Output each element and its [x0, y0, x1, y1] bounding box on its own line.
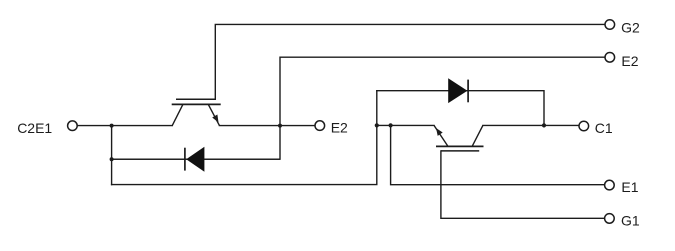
- terminal C1: [579, 121, 589, 131]
- gate bar U1: [441, 150, 479, 152]
- diode D1 (right anti-parallel diode, pointing right): [448, 78, 468, 103]
- diode D2 cathode bar: [184, 148, 186, 171]
- diode D2 (left anti-parallel diode, pointing left): [185, 147, 280, 172]
- wire main row right: U1 collector leg foot to x=544: [483, 124, 544, 126]
- collector leg U2: [172, 104, 183, 125]
- wire G2 net: from U2 gate bar up and across to G2 terminal: [215, 24, 604, 99]
- terminal G1: [605, 214, 615, 224]
- terminal G2: [605, 20, 615, 30]
- terminal E1: [605, 180, 615, 190]
- wire E1 drop at x=390.6 and E1 row: [391, 125, 605, 184]
- node junction diode row left: [110, 157, 114, 161]
- svg-text:C1: C1: [595, 120, 613, 136]
- terminal E2 mid: [315, 121, 325, 131]
- node junction riser x=376.8 on main row: [375, 123, 379, 127]
- emitter arrow U2: [212, 115, 218, 123]
- svg-text:C2E1: C2E1: [17, 120, 52, 136]
- diode D1 cathode bar: [467, 80, 469, 103]
- collector leg U1: [472, 125, 483, 146]
- svg-text:G2: G2: [621, 19, 640, 35]
- node junction C1 branch: [542, 123, 546, 127]
- wire main row right: riser to U1 emitter leg foot: [377, 124, 434, 126]
- terminal E2 top: [605, 53, 615, 63]
- transistor U1 (right IGBT, flipped): [434, 125, 484, 150]
- wire C2E1 vertical drop at x=111.6: [111, 126, 113, 185]
- wire left diode row stub from junction to diode: [112, 158, 186, 160]
- transistor U2 (left IGBT): [172, 99, 221, 125]
- svg-text:E2: E2: [621, 53, 638, 69]
- node junction E2 branch: [278, 124, 282, 128]
- body bar U1: [436, 145, 484, 147]
- wire C1 spur: [544, 124, 579, 126]
- wire G1 net: from U1 gate bar down and across to G1 terminal: [441, 151, 604, 218]
- diode D1 triangle: [448, 78, 467, 103]
- emitter leg U1: [434, 125, 448, 146]
- emitter arrow U1: [436, 128, 443, 136]
- wire right diode row across top and drop x=544: [377, 91, 544, 126]
- terminal C2E1: [68, 121, 78, 131]
- emitter leg U2: [208, 104, 219, 125]
- wire D2 anode to corner x=280: [204, 158, 280, 160]
- body bar U2: [172, 103, 221, 105]
- wire E2 top net: from E2 terminal left, down at x=280 to left diode row: [113, 57, 605, 159]
- wire main row left: C2E1 terminal to U2 collector leg foot: [78, 125, 173, 127]
- svg-text:G1: G1: [621, 212, 640, 228]
- gate bar U2: [176, 98, 216, 100]
- svg-text:E2: E2: [331, 120, 348, 136]
- svg-text:E1: E1: [621, 179, 638, 195]
- wire main row left: U2 emitter leg foot to E2 mid terminal: [219, 125, 314, 127]
- diode D2 triangle: [186, 147, 204, 172]
- wire bottom link row and riser x=376.8 up to diode row: [112, 91, 377, 185]
- node junction E1 drop on main row: [389, 123, 393, 127]
- node junction at C2E1 branch: [110, 124, 114, 128]
